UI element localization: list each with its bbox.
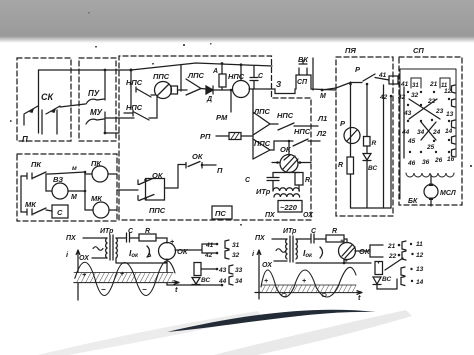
wire ОК bottom osc1 bbox=[167, 259, 222, 285]
wire НПС to С cap bbox=[249, 88, 254, 90]
hook contacts right column bbox=[452, 85, 456, 93]
brush box on ППС bbox=[171, 86, 178, 94]
light swoosh band left bbox=[25, 311, 262, 355]
wire ПК down МК bbox=[20, 176, 22, 212]
resistor R mid bbox=[295, 173, 303, 186]
terminal 12 osc2 bbox=[411, 253, 413, 255]
svg-text:R: R bbox=[372, 140, 377, 147]
machine НПС circle bbox=[233, 81, 250, 98]
main amplifier dashed box bbox=[119, 56, 311, 220]
svg-text:R: R bbox=[305, 177, 310, 184]
wire bus down to М wire bbox=[312, 58, 314, 90]
svg-text:25: 25 bbox=[426, 144, 435, 151]
hook 32 osc1 bbox=[225, 250, 229, 259]
svg-text:НПС: НПС bbox=[294, 127, 311, 136]
contact to Л2 bbox=[293, 139, 320, 146]
svg-text:С: С bbox=[258, 73, 264, 80]
box ~220 bbox=[278, 201, 302, 213]
capacitor С osc2 bbox=[311, 234, 326, 243]
svg-text:t: t bbox=[175, 285, 178, 294]
wire пя bottom bbox=[351, 207, 392, 209]
label ~ osc2 bbox=[276, 249, 286, 253]
machine МК circle bbox=[93, 202, 109, 218]
svg-text:Д: Д bbox=[206, 96, 212, 103]
label ~ osc1 bbox=[93, 247, 103, 251]
svg-text:21: 21 bbox=[429, 81, 438, 88]
svg-text:i: i bbox=[66, 250, 69, 259]
svg-text:НПС: НПС bbox=[126, 103, 143, 112]
svg-text:11: 11 bbox=[441, 83, 448, 89]
wire contacts to ОК switch bbox=[165, 165, 187, 189]
wire ОК right to terminals osc2 bbox=[355, 245, 383, 257]
contact ПУ bbox=[86, 99, 104, 104]
svg-text:МУ: МУ bbox=[90, 108, 103, 117]
contact НПС lower bbox=[124, 97, 157, 120]
machine ОК hatched circle bbox=[280, 155, 298, 173]
svg-text:−: − bbox=[142, 285, 147, 294]
wire СК to МУ bbox=[60, 104, 85, 107]
svg-text:С: С bbox=[57, 208, 63, 217]
svg-text:42: 42 bbox=[204, 252, 213, 259]
transformer ИТр osc1 bbox=[110, 235, 113, 260]
svg-text:ПК: ПК bbox=[31, 160, 42, 169]
wavy bottom edge of matrix bbox=[406, 173, 454, 177]
hatched band osc2 bbox=[261, 285, 356, 293]
block ПЯ dashed box bbox=[336, 57, 393, 216]
svg-text:м: м bbox=[72, 165, 77, 172]
capacitor С top bbox=[250, 66, 258, 90]
svg-text:ПХ: ПХ bbox=[66, 235, 77, 242]
matrix contact dots bbox=[407, 91, 450, 153]
box С small bbox=[52, 205, 68, 218]
contact ПК bbox=[21, 172, 50, 179]
capacitor С mid bbox=[267, 173, 279, 192]
wire diode to НПС machine bbox=[213, 89, 232, 91]
wire primary osc1 bbox=[83, 238, 107, 258]
svg-text:33: 33 bbox=[235, 267, 243, 274]
diode Д bbox=[206, 86, 213, 94]
node bus НПС junction bbox=[130, 69, 133, 72]
svg-text:32: 32 bbox=[411, 92, 419, 99]
arrow Iок osc2 bbox=[320, 247, 323, 258]
node on top wire at А bbox=[221, 62, 224, 65]
contact ОК horizontal bbox=[186, 162, 216, 169]
svg-text:36: 36 bbox=[422, 159, 430, 166]
wire ЛПС emitter to Л1 line bbox=[270, 123, 278, 125]
svg-text:R: R bbox=[338, 162, 343, 169]
svg-text:П: П bbox=[22, 135, 28, 144]
wire ОК down rail bbox=[273, 172, 299, 174]
svg-text:13: 13 bbox=[416, 266, 424, 273]
svg-text:ПУ: ПУ bbox=[88, 89, 100, 98]
machine МСЛ circle bbox=[430, 175, 432, 185]
svg-text:ППС: ППС bbox=[149, 206, 166, 215]
wire М into ПЯ bbox=[322, 83, 351, 91]
wire РМ coil stub bbox=[230, 90, 232, 112]
svg-text:ВС: ВС bbox=[201, 277, 211, 284]
svg-text:РП: РП bbox=[200, 132, 211, 141]
block СП dashed box bbox=[399, 57, 462, 205]
svg-text:А: А bbox=[212, 68, 218, 75]
transformer ИТр osc2 bbox=[290, 236, 293, 262]
module ВС osc1 bbox=[194, 263, 201, 276]
capacitor С osc1 bbox=[127, 233, 140, 242]
block ПУ-МУ dashed box bbox=[79, 58, 116, 141]
wire matrix verticals bbox=[403, 87, 405, 158]
terminal 13 osc2 bbox=[410, 268, 412, 270]
svg-text:ИТр: ИТр bbox=[256, 187, 271, 196]
svg-text:34: 34 bbox=[417, 129, 425, 136]
wire secondary top osc2 bbox=[296, 238, 310, 240]
wire matrix cross 2 bbox=[421, 122, 436, 140]
transistor ЛПС bbox=[253, 112, 270, 135]
wire secondary bottom osc1 bbox=[116, 258, 167, 263]
resistor R osc1 bbox=[139, 234, 156, 241]
svg-text:23: 23 bbox=[435, 108, 444, 115]
node М bbox=[321, 89, 324, 92]
svg-text:+: + bbox=[82, 272, 86, 279]
wire МУ to НПС lower bbox=[105, 117, 134, 119]
svg-text:12: 12 bbox=[416, 252, 424, 259]
svg-text:+: + bbox=[340, 238, 344, 245]
contact СП bracket bbox=[296, 75, 336, 90]
svg-text:З: З bbox=[276, 80, 281, 89]
svg-text:П: П bbox=[217, 166, 223, 175]
svg-text:ОХ: ОХ bbox=[79, 255, 90, 262]
hook 22 osc2 bbox=[402, 251, 406, 260]
svg-text:ИТр: ИТр bbox=[100, 228, 114, 235]
wire З dip bbox=[254, 89, 295, 94]
wire bus down to НПС contact bbox=[122, 70, 131, 87]
wire top bus of amp section bbox=[131, 63, 272, 91]
top gray gradient bar bbox=[0, 0, 474, 43]
wire amp to diode bbox=[201, 88, 206, 91]
mark dip2 osc2 bbox=[322, 293, 326, 296]
svg-text:ППС: ППС bbox=[254, 139, 271, 148]
fuse РП bbox=[216, 135, 252, 137]
wire ПК to ВЗ bbox=[46, 172, 85, 191]
svg-text:31: 31 bbox=[412, 83, 419, 89]
matrix block outline bbox=[400, 69, 456, 199]
svg-text:ПХ: ПХ bbox=[255, 235, 266, 242]
button ВК bbox=[299, 60, 307, 75]
wire Л2 line to ОК machine bbox=[288, 141, 290, 155]
svg-text:ВК: ВК bbox=[298, 55, 309, 64]
mark dip1 osc2 bbox=[282, 293, 286, 296]
svg-text:41: 41 bbox=[205, 242, 214, 249]
wire matrix cross 1 bbox=[409, 99, 440, 119]
svg-text:26: 26 bbox=[434, 157, 443, 164]
bracket slot 31 bbox=[411, 78, 421, 88]
wire top-left bus bbox=[39, 69, 123, 71]
svg-text:СК: СК bbox=[41, 92, 54, 102]
svg-text:34: 34 bbox=[235, 278, 243, 285]
svg-text:13: 13 bbox=[446, 111, 454, 118]
contact МУ bbox=[86, 112, 105, 127]
axis t osc2 bbox=[255, 291, 362, 295]
wire secondary bottom osc2 bbox=[296, 259, 371, 263]
scan speckles bbox=[10, 12, 472, 226]
svg-text:ОК: ОК bbox=[192, 152, 204, 161]
light swoosh band right bbox=[190, 310, 412, 355]
hook 34 osc1 bbox=[229, 276, 233, 285]
svg-text:ВС: ВС bbox=[382, 276, 392, 283]
wire vertical junction column bbox=[84, 172, 86, 210]
svg-text:24: 24 bbox=[432, 129, 441, 136]
svg-text:21: 21 bbox=[387, 243, 396, 250]
machine ППС circle bbox=[155, 82, 172, 99]
svg-text:БК: БК bbox=[408, 198, 418, 205]
hatched band osc1 bbox=[74, 273, 173, 283]
wire ОК right to terminals osc1 bbox=[175, 244, 216, 253]
transistor ППС bbox=[253, 139, 270, 159]
transformer ИТр mid bbox=[273, 188, 299, 191]
amplifier ЛПС open triangle bbox=[186, 79, 201, 95]
svg-text:НПС: НПС bbox=[277, 111, 294, 120]
svg-text:ОК: ОК bbox=[280, 145, 292, 154]
wire ВЗ row to relay contacts bbox=[117, 189, 138, 191]
svg-text:ВС: ВС bbox=[368, 165, 378, 172]
resistor А bbox=[219, 74, 226, 87]
svg-text:Р: Р bbox=[355, 65, 361, 74]
svg-text:РМ: РМ bbox=[216, 113, 228, 122]
svg-text:ЛПС: ЛПС bbox=[187, 71, 205, 80]
contact Р top bbox=[351, 74, 390, 83]
dark swoosh crescent bbox=[167, 310, 376, 332]
svg-text:11: 11 bbox=[416, 241, 423, 248]
node junction on top bus bbox=[104, 69, 107, 72]
svg-text:М: М bbox=[71, 194, 77, 201]
resistor R пя bbox=[347, 157, 354, 174]
wire R to ОК osc2 bbox=[344, 239, 347, 243]
hook 31 osc1 bbox=[225, 240, 229, 249]
svg-text:Iок: Iок bbox=[303, 248, 313, 259]
wire amp base column bbox=[252, 89, 254, 159]
svg-text:М: М bbox=[320, 93, 326, 100]
wire СК legs bbox=[42, 110, 57, 134]
wire ВЗ output bbox=[68, 190, 85, 192]
svg-text:СП: СП bbox=[413, 46, 424, 55]
svg-text:+: + bbox=[302, 278, 306, 285]
hook 14 osc2 bbox=[401, 277, 405, 286]
svg-text:41: 41 bbox=[378, 72, 387, 79]
bracket slot 11 bbox=[440, 78, 450, 88]
svg-text:ОХ: ОХ bbox=[262, 262, 273, 269]
axis t osc1 bbox=[74, 281, 179, 285]
meter Р circle bbox=[344, 128, 360, 144]
svg-text:+: + bbox=[120, 271, 124, 278]
svg-text:43: 43 bbox=[218, 267, 227, 274]
svg-text:+: + bbox=[264, 278, 268, 285]
svg-text:22: 22 bbox=[388, 253, 397, 260]
svg-text:32: 32 bbox=[232, 252, 240, 259]
svg-text:~220: ~220 bbox=[280, 203, 298, 212]
svg-text:МСЛ: МСЛ bbox=[440, 190, 456, 197]
transistor 1 in СК bbox=[24, 106, 38, 114]
machine ОК osc1 bbox=[159, 243, 176, 260]
svg-text:МК: МК bbox=[25, 200, 37, 209]
svg-text:i: i bbox=[252, 249, 255, 258]
wire R to ОК osc1 bbox=[156, 238, 167, 243]
block СК dashed box bbox=[17, 58, 71, 141]
terminal 14 osc2 bbox=[411, 280, 413, 282]
svg-text:14: 14 bbox=[445, 128, 453, 135]
svg-text:45: 45 bbox=[407, 138, 416, 145]
wire node down to ПУ bbox=[104, 70, 106, 100]
svg-text:Л2: Л2 bbox=[316, 129, 327, 138]
wire ОК side taps bbox=[272, 162, 311, 164]
terminal 11 osc2 bbox=[410, 243, 412, 245]
wire primary osc2 bbox=[272, 239, 287, 261]
svg-text:Р: Р bbox=[340, 119, 346, 128]
box terminal 41 bbox=[389, 76, 398, 84]
svg-text:Iок: Iок bbox=[129, 248, 139, 259]
wire ППС to ЛПС amp bbox=[178, 89, 188, 91]
svg-text:НПС: НПС bbox=[126, 78, 143, 87]
wire right branch пя bbox=[366, 84, 368, 208]
machine ОК osc2 bbox=[339, 243, 356, 260]
machine ВЗ circle bbox=[52, 183, 68, 199]
transistor 2 in СК bbox=[46, 106, 60, 114]
wire ЛПС lower emitter bbox=[270, 141, 293, 150]
svg-text:31: 31 bbox=[232, 242, 240, 249]
module ВС osc2 bbox=[375, 262, 383, 275]
machine ПК circle bbox=[92, 166, 108, 182]
svg-text:R: R bbox=[332, 228, 337, 235]
node НПС machine top stub bbox=[240, 63, 243, 66]
svg-text:НПС: НПС bbox=[228, 72, 245, 81]
wire 41 down 42 bbox=[384, 85, 392, 208]
hook 13 osc2 bbox=[401, 267, 405, 276]
svg-text:ЛПС: ЛПС bbox=[253, 107, 271, 116]
wire СК left leg to bus bbox=[38, 70, 40, 133]
svg-text:12: 12 bbox=[444, 88, 452, 95]
svg-text:46: 46 bbox=[407, 160, 416, 167]
svg-text:ПХ: ПХ bbox=[265, 212, 276, 219]
node МУ bottom bbox=[104, 132, 107, 135]
svg-text:СП: СП bbox=[297, 79, 308, 86]
hook 33 osc1 bbox=[229, 265, 233, 274]
svg-text:Л1: Л1 bbox=[317, 114, 327, 123]
arrow Iок osc1 bbox=[147, 246, 151, 257]
hook 21 osc2 bbox=[402, 241, 406, 250]
wire НПС pair link bbox=[130, 92, 132, 108]
svg-text:ППС: ППС bbox=[153, 72, 170, 81]
svg-text:14: 14 bbox=[416, 279, 424, 286]
svg-text:ОХ: ОХ bbox=[303, 212, 314, 219]
svg-text:ПС: ПС bbox=[215, 209, 226, 218]
sine wave osc1 bbox=[75, 261, 175, 296]
svg-text:44: 44 bbox=[401, 129, 410, 136]
svg-text:t: t bbox=[358, 293, 361, 302]
contact МК bbox=[21, 208, 52, 215]
zener ВС пя bbox=[363, 154, 371, 161]
box ПС bbox=[212, 206, 232, 219]
contact НПС upper bbox=[131, 87, 155, 97]
block ПК-ВЗ-МК dashed box bbox=[17, 154, 117, 221]
wire secondary top osc1 bbox=[116, 237, 126, 239]
contact to Л1 bbox=[278, 123, 318, 130]
resistor upper right пя bbox=[364, 137, 371, 147]
svg-text:ИТр: ИТр bbox=[283, 228, 297, 235]
wire МСЛ bottom bbox=[430, 200, 432, 206]
sine wave osc2 bbox=[261, 267, 356, 297]
svg-text:С: С bbox=[245, 177, 251, 184]
wire left rail пя bbox=[350, 82, 352, 208]
svg-text:ПЯ: ПЯ bbox=[345, 46, 356, 55]
svg-text:−: − bbox=[101, 285, 106, 294]
svg-text:ОК: ОК bbox=[177, 247, 189, 256]
resistor R osc2 bbox=[326, 235, 344, 242]
